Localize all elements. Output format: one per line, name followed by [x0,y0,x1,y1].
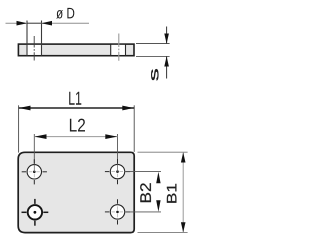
dim L1 arrow left [19,106,31,111]
hole H2 edge line right [125,45,127,56]
hole H2 bore (side view slot) [111,45,125,55]
dim B1 arrow top [181,152,186,162]
dim L1 line [19,107,135,109]
dim S extension line bottom [136,55,170,57]
hole D (bottom-right) ring [105,199,130,224]
dim øD arrow right (pointing left at tip x=41.5) [41,21,52,26]
dim B2 extension line bottom [125,211,162,213]
plate side view body [18,44,134,56]
dim L1 arrow right [122,106,134,111]
hole H2 center line (side view) [118,34,120,61]
dim øD arrow left (pointing right at tip x=27) [17,21,28,26]
dim S extension line top [136,43,170,45]
dim B1 extension line top [138,151,188,153]
dim B2 arrow bottom [156,200,160,211]
hole H1 edge line right / dim øD extension line right [41,21,43,56]
dim S line lower tail [166,56,168,78]
dim B1 arrow bottom [181,222,186,232]
dim B1 label [167,184,177,203]
dim S line upper tail [166,27,168,44]
hole C (bottom-left, bold) ring [22,199,49,226]
dim B2 label [140,183,151,202]
dim L1 label [69,92,81,105]
dim L2 extension line left inside hole A [33,165,35,172]
dim øD line between extension lines [27,22,42,24]
hole B (top-right) ring [105,159,130,184]
hole H1 center line (side view) [33,36,35,61]
plate top view body [18,152,134,232]
dim øD label [56,8,74,19]
dim L2 label [70,119,85,132]
dim L2 extension line right (into hole B center) [117,134,119,164]
hole A (top-left) ring [22,159,47,184]
dim B2 extension line top [125,171,162,173]
dim B1 extension line bottom [138,232,188,234]
dim L2 extension line left (into hole A center) [33,134,35,165]
dim L2 arrow left [35,134,47,139]
dim S arrow bottom (pointing up at tip y=56.4) [164,56,169,66]
dim øD line left tail [6,22,28,24]
dim B1 line [182,152,184,232]
dim S label [151,69,159,81]
dim L1 extension line left [18,105,20,152]
hole H1 bore (side view slot) [28,45,41,55]
dim øD line right tail and leader to label [42,22,90,24]
dim S arrow top (pointing down at tip y=43.5) [164,34,169,44]
hole H2 edge line left [110,45,112,56]
dim B2 arrow top [156,172,160,183]
dim L2 extension line right inside hole B [117,164,119,171]
dim L2 arrow right [105,134,117,139]
dim L1 extension line right [133,105,135,152]
dim L2 line [34,136,117,138]
hole H1 edge line left / dim øD extension line left [26,21,28,56]
